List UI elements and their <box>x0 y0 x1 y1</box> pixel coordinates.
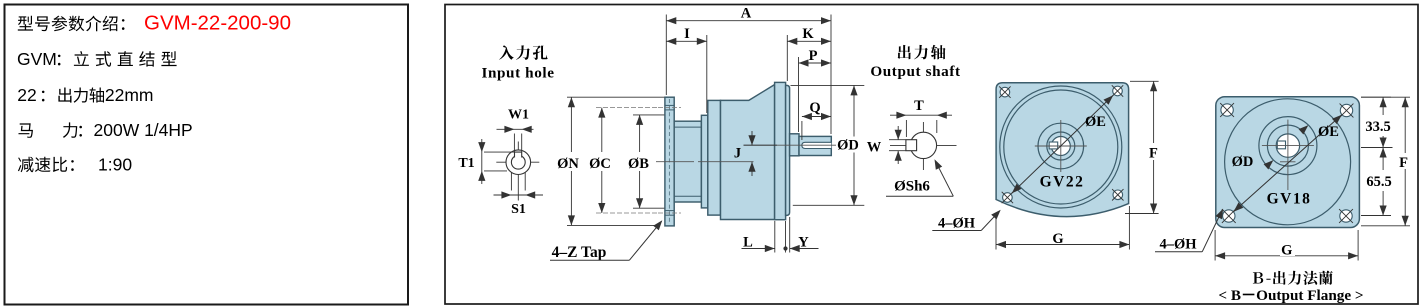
svg-text:4–Z Tap: 4–Z Tap <box>552 244 607 261</box>
dim B <box>633 114 664 116</box>
bolt hole <box>1340 104 1352 116</box>
svg-text:T1: T1 <box>458 156 474 171</box>
dim 33.5 <box>1361 96 1391 98</box>
bolt hole <box>1221 104 1233 116</box>
GV22 bore <box>1051 137 1070 156</box>
svg-text:F: F <box>1149 146 1158 162</box>
GV18 motor circle <box>1225 99 1351 225</box>
input hole outer circle <box>506 150 531 175</box>
svg-text:K: K <box>802 26 814 42</box>
GV22 spigot circle <box>1047 132 1075 160</box>
output centerline <box>744 144 837 146</box>
line5: reduction ratio <box>18 157 74 173</box>
GV22 boss circle <box>1038 123 1084 169</box>
GV18 diagonal <box>1234 115 1342 212</box>
svg-text:Input hole: Input hole <box>481 65 554 82</box>
svg-text:ØD: ØD <box>837 138 859 154</box>
GV18 bore <box>1276 134 1299 157</box>
GV22 plate <box>996 83 1129 217</box>
svg-text:GV22: GV22 <box>1040 174 1085 191</box>
dim D side <box>791 84 865 86</box>
svg-text:Y: Y <box>798 235 809 251</box>
svg-text:< B－Output Flange >: < B－Output Flange > <box>1218 287 1363 304</box>
svg-text:S1: S1 <box>511 202 526 217</box>
GV18 OE arrow <box>1299 125 1309 134</box>
dim T1 <box>484 151 515 153</box>
bolt hole <box>1223 210 1235 222</box>
input hole centerlines <box>496 161 539 163</box>
dim C <box>601 108 603 213</box>
svg-text:ØB: ØB <box>628 156 649 172</box>
GV18 ext ring <box>1259 117 1317 175</box>
line1: model intro <box>18 16 125 32</box>
motor body <box>721 85 775 220</box>
svg-text:J: J <box>734 146 741 162</box>
svg-text:Q: Q <box>809 100 820 116</box>
dim W <box>889 139 906 141</box>
bolt hole <box>1113 86 1123 96</box>
svg-text:I: I <box>684 26 690 42</box>
GV22 motor ring inner <box>1004 90 1118 204</box>
input hole bore <box>511 155 525 169</box>
dim L <box>774 221 776 253</box>
svg-text:GVM: GVM <box>17 49 57 69</box>
svg-text:ØN: ØN <box>557 156 579 172</box>
dim T <box>905 120 907 137</box>
line4: horse power <box>19 123 33 138</box>
output shaft side <box>799 136 831 155</box>
svg-text:Output shaft: Output shaft <box>870 63 960 80</box>
GV22 motor ring outer <box>1000 86 1122 208</box>
dim G GV22 <box>995 218 997 250</box>
GV18 crosshair <box>1262 145 1314 147</box>
svg-text:ØSh6: ØSh6 <box>894 179 930 195</box>
svg-text:W: W <box>867 140 882 156</box>
svg-text:G: G <box>1052 231 1063 247</box>
dim K <box>786 35 788 81</box>
dim F GV18 <box>1361 96 1410 98</box>
dim G GV18 <box>1214 230 1216 261</box>
dim 65.5 <box>1361 215 1391 217</box>
GV22 crosshair <box>1035 145 1087 147</box>
flange tap band bottom <box>665 210 674 212</box>
svg-text:22mm: 22mm <box>105 85 154 105</box>
svg-text:W1: W1 <box>508 108 529 123</box>
dim P <box>798 57 800 132</box>
dim F GV22 <box>1130 80 1159 82</box>
svg-text:33.5: 33.5 <box>1365 119 1390 135</box>
input centerline <box>656 161 694 163</box>
output key <box>906 140 917 151</box>
caption B-output flange CJK <box>1253 271 1333 285</box>
side view: flange column <box>665 97 674 226</box>
bolt hole <box>1340 210 1352 222</box>
svg-text:GVM-22-200-90: GVM-22-200-90 <box>144 12 291 35</box>
GV22 keyway <box>1049 142 1058 149</box>
GV22 diagonal <box>1012 95 1113 193</box>
dim J <box>744 144 778 146</box>
left info box frame <box>5 5 409 305</box>
svg-text:200W 1/4HP: 200W 1/4HP <box>94 120 193 140</box>
dim Y <box>790 248 819 250</box>
svg-text:ØC: ØC <box>589 156 611 172</box>
flange hidden line <box>668 99 670 224</box>
svg-text:4–ØH: 4–ØH <box>1159 237 1197 253</box>
GV18 OD arrow <box>1264 160 1274 169</box>
svg-text:1:90: 1:90 <box>98 155 132 175</box>
motor end cover <box>786 85 790 215</box>
tap centerline bottom <box>658 212 681 214</box>
bolt hole <box>1003 193 1013 203</box>
output detail centerlines <box>890 144 957 146</box>
GV18 boss circle <box>1267 125 1308 166</box>
output shaft circle <box>910 132 936 158</box>
bolt hole <box>1113 190 1123 200</box>
dim S1 <box>510 172 512 191</box>
label input hole CJK <box>499 45 548 60</box>
dim Q <box>801 121 803 140</box>
label output shaft CJK <box>898 45 946 60</box>
motor rear ring <box>775 82 786 219</box>
gear case <box>708 100 721 215</box>
svg-text:ØD: ØD <box>1232 154 1254 170</box>
svg-text:A: A <box>741 6 752 22</box>
output boss <box>790 134 799 156</box>
tap centerline top <box>658 107 681 109</box>
dim N <box>567 96 664 98</box>
svg-text:P: P <box>809 48 818 64</box>
svg-text:F: F <box>1399 155 1408 171</box>
GV18 plate <box>1216 97 1360 228</box>
output shaft keyway <box>802 142 831 148</box>
svg-text:ØE: ØE <box>1085 114 1106 130</box>
dim W1 <box>513 134 515 153</box>
svg-text:GV18: GV18 <box>1267 191 1312 208</box>
svg-text:L: L <box>743 235 753 251</box>
svg-text:4–ØH: 4–ØH <box>938 216 976 232</box>
svg-text:G: G <box>1281 243 1292 259</box>
svg-text:ØE: ØE <box>1318 124 1339 140</box>
svg-text:T: T <box>914 98 924 114</box>
svg-text:22: 22 <box>17 85 36 105</box>
dim I <box>706 35 708 113</box>
hub between flange and case <box>674 121 701 202</box>
GV18 keyway <box>1277 141 1285 149</box>
flange tap band top <box>665 104 674 106</box>
drawing frame <box>445 5 1418 305</box>
dim A <box>665 15 667 96</box>
gear case front plate <box>701 115 707 208</box>
input hole keyway slot <box>515 152 522 157</box>
bolt hole <box>1000 87 1010 97</box>
svg-text:65.5: 65.5 <box>1366 174 1391 190</box>
